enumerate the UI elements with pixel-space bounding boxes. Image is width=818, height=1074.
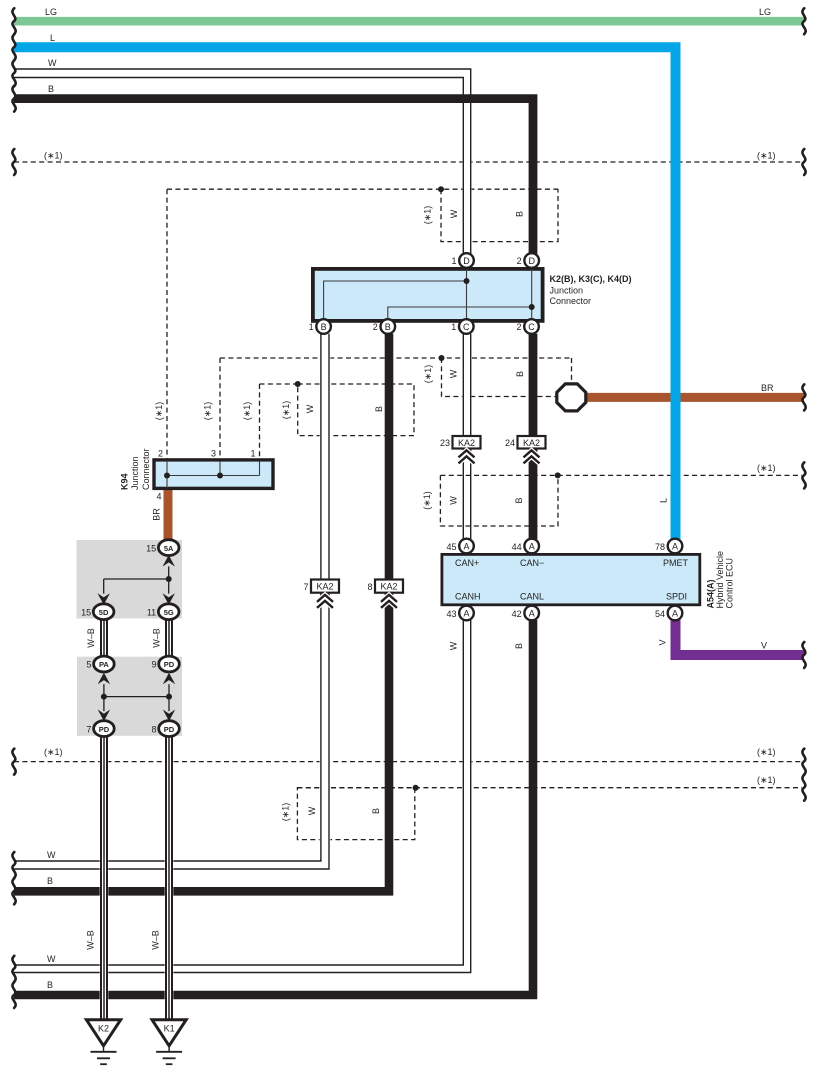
wire B 2B drop to B bus bottom xyxy=(14,334,389,892)
wire gray panel 2 links xyxy=(104,684,169,711)
break squiggle (*1) mid right xyxy=(802,462,805,488)
svg-text:W: W xyxy=(307,806,317,815)
svg-text:B: B xyxy=(47,980,53,990)
arrow down to 5G xyxy=(163,593,175,605)
svg-text:(∗1): (∗1) xyxy=(757,747,776,757)
connector KA2 pin 23 xyxy=(440,436,481,449)
svg-text:D: D xyxy=(528,256,535,266)
node (*1) dashed option line bottom 2 xyxy=(297,787,802,789)
wire mask 43 lower xyxy=(462,620,471,963)
svg-text:24: 24 xyxy=(505,438,515,448)
wire inside junction: 1B riser and horizontal xyxy=(324,281,467,321)
pin 1C xyxy=(451,319,473,334)
svg-text:PD: PD xyxy=(164,725,175,734)
break squiggle (*1) bottom left xyxy=(12,749,15,775)
svg-text:3: 3 xyxy=(211,449,216,459)
wire W 1B left xyxy=(320,334,322,861)
svg-text:8: 8 xyxy=(151,724,156,734)
wire W 1D right line xyxy=(470,84,472,254)
svg-text:1: 1 xyxy=(309,322,314,332)
pin 2B xyxy=(373,319,395,334)
svg-text:7: 7 xyxy=(303,582,308,592)
wire L blue bus and drop to pin 78 xyxy=(14,47,676,540)
svg-text:V: V xyxy=(658,639,668,645)
junction dot box 3 xyxy=(295,381,301,387)
wire W-B right upper xyxy=(166,620,172,657)
oval terminal 5A xyxy=(146,540,179,556)
svg-text:(∗1): (∗1) xyxy=(757,463,776,473)
shield box 5 dashed xyxy=(440,475,558,526)
svg-text:5G: 5G xyxy=(164,608,174,617)
svg-text:W: W xyxy=(449,496,459,505)
break squiggle B left xyxy=(12,86,15,112)
break squiggle (*1) bottom right2 xyxy=(802,775,805,801)
svg-text:(∗1): (∗1) xyxy=(44,747,63,757)
svg-text:2: 2 xyxy=(517,256,522,266)
svg-text:Hybrid Vehicle: Hybrid Vehicle xyxy=(715,551,725,609)
svg-text:(∗1): (∗1) xyxy=(281,803,291,822)
svg-text:L: L xyxy=(659,498,669,503)
svg-text:W–B: W–B xyxy=(152,628,162,648)
svg-text:B: B xyxy=(514,643,524,649)
node (*1) dashed riser K94 pin1 xyxy=(259,384,261,460)
connector KA2 pin 7 xyxy=(303,580,339,593)
svg-text:15: 15 xyxy=(146,543,156,553)
svg-text:K2: K2 xyxy=(98,1024,109,1034)
oval terminal 5G xyxy=(147,604,179,620)
svg-text:A: A xyxy=(529,609,535,619)
pin 44 xyxy=(512,539,539,554)
svg-text:A: A xyxy=(463,609,469,619)
svg-text:11: 11 xyxy=(147,607,156,617)
pin 1D xyxy=(451,253,473,268)
svg-text:Junction: Junction xyxy=(130,456,140,490)
svg-text:B: B xyxy=(321,322,327,332)
wire W 1B drop to W bus bottom outer xyxy=(14,334,321,861)
svg-text:C: C xyxy=(463,322,470,332)
wire inside junction: 2D-2C vertical xyxy=(531,269,533,321)
junction dot gray panel 1 xyxy=(166,576,172,582)
svg-text:A: A xyxy=(529,542,535,552)
arrow down to PD8 xyxy=(163,710,175,722)
svg-text:(∗1): (∗1) xyxy=(154,402,164,421)
svg-text:CANH: CANH xyxy=(455,591,481,601)
break squiggle (*1) top left xyxy=(12,149,15,175)
wire W 1D left line xyxy=(462,84,464,254)
break squiggle B bottom1 left xyxy=(12,878,15,904)
svg-text:5D: 5D xyxy=(99,608,109,617)
svg-text:K2(B), K3(C), K4(D): K2(B), K3(C), K4(D) xyxy=(550,274,632,284)
svg-text:W: W xyxy=(449,369,459,378)
svg-text:PMET: PMET xyxy=(663,558,689,568)
break squiggle (*1) bottom right1 xyxy=(802,749,805,775)
svg-text:W: W xyxy=(47,954,56,964)
ground harness gray panel 1 xyxy=(77,540,183,619)
svg-text:CANL: CANL xyxy=(520,591,544,601)
svg-text:(∗1): (∗1) xyxy=(757,151,776,161)
junction dot box 4 xyxy=(413,785,419,791)
svg-text:(∗1): (∗1) xyxy=(423,206,433,225)
svg-text:(∗1): (∗1) xyxy=(44,151,63,161)
connector octagon shield terminal xyxy=(557,384,586,411)
svg-text:CAN−: CAN− xyxy=(520,558,544,568)
svg-text:5: 5 xyxy=(86,660,91,670)
svg-text:KA2: KA2 xyxy=(380,582,397,592)
node (*1) dashed option line top xyxy=(14,161,802,163)
svg-text:LG: LG xyxy=(45,7,57,17)
junction dot 1D line xyxy=(464,278,470,284)
svg-text:LG: LG xyxy=(759,7,771,17)
junction dot box 5 xyxy=(555,472,561,478)
svg-text:5A: 5A xyxy=(164,544,174,553)
wire B bus top and drop to pin 2D xyxy=(14,99,533,254)
break squiggle (*1) top right xyxy=(802,149,805,175)
oval terminal PD 9 xyxy=(151,656,179,672)
oval terminal PA xyxy=(86,656,114,672)
svg-text:C: C xyxy=(528,322,535,332)
wire W-B left upper xyxy=(101,620,107,657)
svg-text:KA2: KA2 xyxy=(316,582,333,592)
svg-text:W: W xyxy=(449,641,459,650)
svg-text:PA: PA xyxy=(99,660,109,669)
svg-text:Control ECU: Control ECU xyxy=(725,558,735,609)
svg-text:W: W xyxy=(48,58,57,68)
node (*1) dashed riser K94 pin2 xyxy=(166,189,168,460)
svg-text:1: 1 xyxy=(451,256,456,266)
svg-text:A: A xyxy=(463,542,469,552)
wire mask 1C upper xyxy=(462,334,471,436)
wire W pin43 right xyxy=(14,620,471,973)
oval terminal 5D xyxy=(81,604,114,620)
svg-text:K94: K94 xyxy=(120,473,130,490)
shield box 3 dashed xyxy=(298,384,414,436)
svg-text:(∗1): (∗1) xyxy=(242,402,252,421)
svg-text:42: 42 xyxy=(512,609,522,619)
svg-text:7: 7 xyxy=(86,724,91,734)
svg-text:(∗1): (∗1) xyxy=(423,365,433,384)
wire dashed net y358 xyxy=(220,357,572,359)
shield box 2 dashed xyxy=(442,358,557,397)
break squiggle LG left xyxy=(12,8,15,34)
svg-text:(∗1): (∗1) xyxy=(203,402,213,421)
ground triangle K2 xyxy=(86,1020,120,1046)
svg-text:2: 2 xyxy=(516,322,521,332)
svg-text:W: W xyxy=(305,404,315,413)
svg-text:Connector: Connector xyxy=(141,448,151,490)
junction dot at shield box 1 xyxy=(438,186,444,192)
arrow up under PD9 xyxy=(163,673,175,685)
wire W-B left upper mask xyxy=(100,620,109,657)
wire mask 1B xyxy=(320,334,331,860)
ground symbol K1 xyxy=(156,1046,182,1064)
shield box 1 dashed xyxy=(441,189,558,241)
break squiggle B bottom2 left xyxy=(12,982,15,1008)
svg-text:1: 1 xyxy=(451,322,456,332)
junction dot 2C line xyxy=(529,304,535,310)
junction connector K94 box xyxy=(154,460,273,489)
node (*1) dashed line right mid xyxy=(558,474,802,476)
bus LG green xyxy=(14,17,804,26)
pin 2C xyxy=(516,319,538,334)
ground triangle K1 xyxy=(152,1020,186,1046)
svg-text:1: 1 xyxy=(250,449,255,459)
pin 78 xyxy=(655,539,682,554)
wire W pin43 drop to W bus bottom2 outer xyxy=(14,620,463,965)
svg-text:B: B xyxy=(371,808,381,814)
wire W 1C to pin 45 right xyxy=(470,334,472,539)
wire W-B left lower xyxy=(101,736,107,1020)
junction dot K94 pin3 xyxy=(217,473,223,479)
node (*1) dashed riser K94 pin3 xyxy=(219,358,221,460)
connector KA2 pin 24 xyxy=(505,436,546,449)
svg-text:BR: BR xyxy=(761,383,774,393)
svg-text:A: A xyxy=(672,609,678,619)
arrow down to 5D xyxy=(98,593,110,605)
wire W-B right lower mask xyxy=(165,736,174,1020)
wire BR K94 pin4 xyxy=(164,488,173,541)
wire W bus top / drop to pin 1D outer xyxy=(14,69,471,254)
junction dot PA line xyxy=(101,694,107,700)
junction connector K2/K3/K4 box xyxy=(313,269,543,321)
svg-text:8: 8 xyxy=(367,582,372,592)
wire W-B right lower xyxy=(166,736,172,1020)
wire inside junction: 2B riser and horizontal xyxy=(388,307,532,321)
shield chevrons 23 xyxy=(459,450,475,463)
svg-text:KA2: KA2 xyxy=(523,438,540,448)
junction dot K94 pin2 xyxy=(164,473,170,479)
break squiggle W left xyxy=(12,60,15,86)
arrow up under PA xyxy=(98,673,110,685)
svg-text:43: 43 xyxy=(446,609,456,619)
svg-text:2: 2 xyxy=(373,322,378,332)
ECU A54 box xyxy=(442,554,700,604)
pin 1B xyxy=(309,319,331,334)
svg-text:78: 78 xyxy=(655,542,665,552)
svg-text:B: B xyxy=(515,211,525,217)
svg-text:B: B xyxy=(47,876,53,886)
ground harness gray panel 2 xyxy=(77,657,182,736)
wire gray panel 1 links xyxy=(104,566,169,593)
svg-text:W: W xyxy=(449,209,459,218)
connector KA2 pin 8 xyxy=(367,580,403,593)
node (*1) dashed option line bottom 1 xyxy=(14,761,802,763)
shield chevrons 8 xyxy=(381,595,397,608)
break squiggle W bottom1 left xyxy=(12,852,15,878)
oval terminal PD 7 xyxy=(86,721,114,737)
wire inside K94 xyxy=(167,462,260,489)
svg-text:9: 9 xyxy=(151,660,156,670)
svg-text:(∗1): (∗1) xyxy=(757,775,776,785)
wire inside junction: 1D-1C vertical xyxy=(466,269,468,321)
svg-text:L: L xyxy=(50,33,55,43)
svg-text:PD: PD xyxy=(99,725,110,734)
svg-text:(∗1): (∗1) xyxy=(281,401,291,420)
svg-text:W–B: W–B xyxy=(86,930,96,950)
pin 45 xyxy=(446,539,473,554)
svg-text:K1: K1 xyxy=(164,1024,175,1034)
wire W bus top inner xyxy=(14,78,463,255)
ground symbol K2 xyxy=(91,1046,117,1064)
svg-text:KA2: KA2 xyxy=(458,438,475,448)
shield chevrons 24 xyxy=(524,450,540,463)
svg-text:4: 4 xyxy=(156,492,161,502)
arrow down to PD7 xyxy=(98,710,110,722)
wire mask 1D xyxy=(462,84,471,254)
svg-text:A54(A): A54(A) xyxy=(706,579,716,608)
wire W 1B right xyxy=(14,334,329,869)
svg-text:B: B xyxy=(48,84,54,94)
break squiggle LG right xyxy=(802,8,805,34)
svg-text:W–B: W–B xyxy=(86,628,96,648)
svg-text:B: B xyxy=(514,497,524,503)
svg-text:(∗1): (∗1) xyxy=(422,491,432,510)
svg-text:54: 54 xyxy=(655,609,665,619)
pin 42 xyxy=(512,606,539,621)
svg-text:BR: BR xyxy=(152,508,162,521)
svg-text:CAN+: CAN+ xyxy=(455,558,479,568)
break squiggle W bottom2 left xyxy=(12,956,15,982)
svg-text:Junction: Junction xyxy=(550,286,584,296)
wire B pin42 drop to B bus bottom2 xyxy=(14,620,533,995)
pin 2D xyxy=(517,253,539,268)
wire dashed net y384 xyxy=(260,383,298,385)
shield box 4 dashed xyxy=(297,788,414,840)
svg-text:B: B xyxy=(374,406,384,412)
svg-text:45: 45 xyxy=(446,542,456,552)
svg-text:A: A xyxy=(672,542,678,552)
svg-text:W: W xyxy=(47,850,56,860)
wire V purple from pin 54 xyxy=(676,619,805,655)
svg-text:V: V xyxy=(761,641,767,651)
arrow up under 5A xyxy=(163,555,175,567)
break squiggle L left xyxy=(12,34,15,60)
shield chevrons 7 xyxy=(317,595,333,608)
pin 43 xyxy=(446,606,473,621)
svg-text:B: B xyxy=(515,371,525,377)
wire dashed net y189 to shield box 1 xyxy=(167,188,558,190)
svg-text:44: 44 xyxy=(512,542,522,552)
svg-text:15: 15 xyxy=(81,607,91,617)
junction dot box 2 xyxy=(439,355,445,361)
svg-text:2: 2 xyxy=(158,449,163,459)
svg-text:W–B: W–B xyxy=(151,930,161,950)
svg-text:B: B xyxy=(385,322,391,332)
oval terminal PD 8 xyxy=(151,721,179,737)
svg-text:PD: PD xyxy=(164,660,175,669)
wire W-B left lower mask xyxy=(100,736,109,1020)
break squiggle BR right xyxy=(802,384,805,410)
svg-text:SPDI: SPDI xyxy=(666,591,687,601)
wire W 1C to pin 45 left xyxy=(462,334,464,539)
break squiggle V right xyxy=(802,642,805,668)
svg-text:23: 23 xyxy=(440,438,450,448)
junction dot PD line xyxy=(166,694,172,700)
svg-text:Connector: Connector xyxy=(550,296,592,306)
wire BR from octagon to right xyxy=(583,393,804,402)
svg-text:D: D xyxy=(463,256,470,266)
node dashed riser to octagon xyxy=(571,358,573,382)
wire B 2C to pin 44 xyxy=(529,334,538,539)
pin 54 xyxy=(655,606,682,621)
